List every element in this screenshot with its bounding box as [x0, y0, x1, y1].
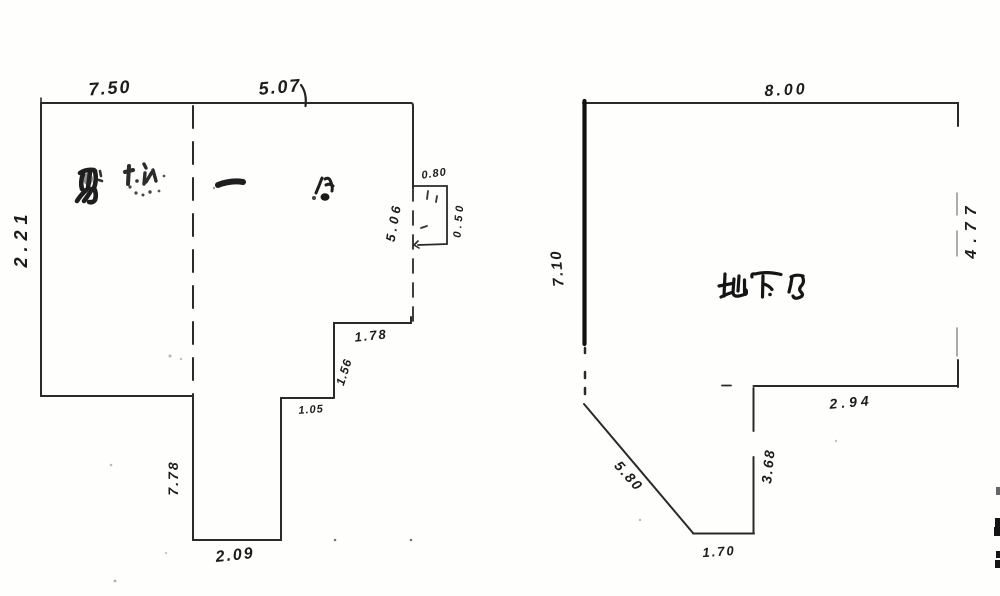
svg-text:1.56: 1.56 [333, 357, 355, 387]
svg-text:5.80: 5.80 [611, 458, 646, 495]
svg-text:7.50: 7.50 [88, 77, 132, 100]
svg-text:4.77: 4.77 [963, 199, 980, 259]
svg-text:0.50: 0.50 [451, 202, 466, 238]
svg-text:2.94: 2.94 [828, 392, 873, 412]
svg-text:0.80: 0.80 [421, 166, 448, 181]
svg-text:1.78: 1.78 [354, 326, 389, 344]
svg-text:3.68: 3.68 [758, 448, 778, 485]
svg-text:7.10: 7.10 [547, 249, 567, 288]
svg-text:1.05: 1.05 [298, 403, 324, 417]
svg-text:2.09: 2.09 [214, 545, 256, 566]
svg-text:5.07: 5.07 [258, 75, 303, 99]
svg-text:8.00: 8.00 [764, 81, 808, 100]
svg-text:1.70: 1.70 [702, 543, 736, 560]
svg-text:7.78: 7.78 [165, 460, 181, 495]
svg-text:2.21: 2.21 [11, 208, 31, 268]
svg-text:5.06: 5.06 [383, 201, 405, 242]
